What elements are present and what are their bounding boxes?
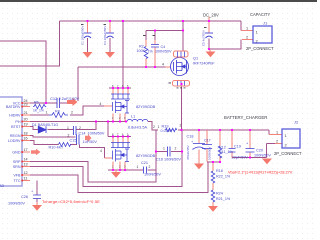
- Q1 drain pin block: [173, 81, 190, 87]
- capacitor C26: [33, 195, 41, 199]
- svg-text:D1 BAS40LT1G: D1 BAS40LT1G: [32, 123, 58, 127]
- stub divider mid: [212, 183, 214, 190]
- pin stub Q2 gate: [104, 105, 112, 107]
- svg-text:18: 18: [24, 131, 28, 135]
- wire Q3 drain bus: [108, 136, 131, 138]
- wire rail corner to J2 pin1: [268, 130, 270, 135]
- node rail C1: [86, 20, 88, 22]
- svg-text:2: 2: [68, 134, 70, 138]
- pin pads IC: [21, 102, 23, 181]
- svg-text:1: 1: [158, 125, 160, 129]
- stub C26 ground: [36, 202, 38, 205]
- svg-text:R6: R6: [34, 101, 39, 105]
- ground battery minus: [262, 159, 272, 165]
- wire PH node y121.5: [30, 121, 127, 123]
- node bat rail C20: [249, 129, 251, 131]
- stub R11 bottom: [219, 156, 221, 162]
- wire L1 to R19: [148, 122, 158, 131]
- svg-text:23: 23: [24, 103, 28, 107]
- transistor Q1: [171, 58, 189, 76]
- ground C5: [206, 52, 216, 58]
- svg-text:4: 4: [100, 102, 102, 106]
- svg-text:C16 100N/50V: C16 100N/50V: [156, 158, 181, 162]
- svg-text:100K: 100K: [137, 49, 146, 53]
- stub C20 column: [249, 130, 251, 158]
- svg-text:2: 2: [79, 126, 81, 130]
- top toolbar bar: [0, 0, 317, 2]
- svg-text:VFB: VFB: [13, 174, 21, 178]
- stub divider bottom ground: [212, 202, 214, 206]
- stub C5 top: [208, 17, 210, 33]
- polarity marks caps: [81, 24, 207, 36]
- svg-text:C21: C21: [141, 161, 148, 165]
- wire SRN sense: [30, 152, 182, 187]
- wire VFB sense to divider: [30, 162, 213, 193]
- svg-text:1: 1: [276, 131, 278, 135]
- svg-text:Q1: Q1: [193, 57, 198, 61]
- capacitor C1: [84, 33, 92, 38]
- stub DC_28V label: [208, 17, 210, 22]
- svg-text:2: 2: [180, 124, 182, 128]
- svg-text:4: 4: [162, 63, 164, 67]
- stub R11 top: [219, 131, 221, 146]
- svg-text:100N/50V: 100N/50V: [254, 154, 271, 158]
- resistor R2: [144, 47, 148, 59]
- pin stub BTST 19: [22, 126, 30, 128]
- wire C1 bottom lead: [87, 38, 89, 52]
- svg-text:2: 2: [175, 147, 177, 151]
- ground C18: [194, 164, 204, 170]
- wire C3 bottom lead: [109, 38, 111, 52]
- capacitor C20: [246, 149, 255, 153]
- capacitor C12: [57, 98, 60, 108]
- capacitor C14: [74, 126, 77, 135]
- svg-text:82Y09GDB: 82Y09GDB: [136, 105, 156, 109]
- capacitor C16: [168, 147, 171, 157]
- svg-text:AD: AD: [0, 184, 4, 188]
- wire LODRV row to Q3 gate: [30, 141, 105, 159]
- node Q3 bus: [112, 135, 114, 137]
- stub C18 column: [198, 130, 200, 164]
- pin stub REGN 18: [22, 135, 30, 137]
- power arrow at VCC C12 node: [67, 98, 78, 106]
- svg-text:C17: C17: [204, 139, 211, 143]
- wire Q3 source ground bus: [108, 169, 156, 171]
- wire input rail DC_28V y21: [60, 20, 242, 22]
- resistor R6: [33, 104, 46, 108]
- stub C4 top: [154, 40, 156, 44]
- stub C17 column: [206, 130, 208, 162]
- stub divider top: [212, 162, 214, 171]
- svg-text:13: 13: [24, 162, 28, 166]
- resistor R11: [218, 146, 222, 158]
- svg-text:100N/50V: 100N/50V: [88, 132, 105, 136]
- svg-text:6.8uH/3.5A: 6.8uH/3.5A: [128, 126, 147, 130]
- node PH c: [112, 120, 114, 122]
- node bat rail R11: [219, 129, 221, 131]
- svg-text:20: 20: [24, 117, 28, 121]
- ground Q3 source: [111, 172, 121, 178]
- svg-text:C20: C20: [256, 149, 263, 153]
- svg-text:19: 19: [24, 122, 28, 126]
- svg-text:C4: C4: [161, 45, 166, 49]
- pin numbers Q2 top: [112, 84, 129, 88]
- svg-text:2P_CONNECT: 2P_CONNECT: [274, 151, 302, 156]
- wire vertical x78 arrow to gate net: [77, 67, 79, 101]
- capacitor C3: [106, 33, 114, 38]
- svg-text:IRF7240PbF: IRF7240PbF: [193, 62, 215, 66]
- svg-text:14: 14: [24, 157, 28, 161]
- capacitor C15: [77, 135, 80, 145]
- svg-text:470uF/35V: 470uF/35V: [186, 145, 190, 160]
- svg-text:R21_1%: R21_1%: [216, 197, 231, 201]
- capacitor C21: [144, 167, 147, 174]
- svg-text:11: 11: [24, 176, 28, 180]
- svg-text:GND: GND: [12, 151, 21, 155]
- ground divider: [208, 206, 218, 212]
- inductor L1: [127, 119, 148, 121]
- svg-text:100N/50V: 100N/50V: [144, 173, 161, 177]
- node PH d: [119, 120, 121, 122]
- svg-text:R22_1%: R22_1%: [216, 175, 231, 179]
- node bat rail Q1: [180, 129, 182, 131]
- node C5 bottom: [208, 48, 210, 50]
- node Q2 bus: [112, 87, 114, 89]
- ground C3: [105, 52, 115, 58]
- capacitor C17: [202, 145, 212, 149]
- svg-text:BATTERY_CHARGER: BATTERY_CHARGER: [224, 115, 267, 120]
- svg-text:SRP: SRP: [13, 160, 21, 164]
- stub Q2 source pins: [113, 114, 125, 122]
- stub ground Q3 bus: [115, 170, 117, 172]
- node PH b: [107, 120, 109, 122]
- pin stub VCC 24: [22, 102, 30, 104]
- wire REGN row: [30, 136, 76, 138]
- svg-text:16: 16: [24, 136, 28, 140]
- svg-text:0.01W: 0.01W: [161, 129, 172, 133]
- svg-text:4: 4: [100, 149, 102, 153]
- wire J2 pin2 to ground: [267, 144, 276, 158]
- stub Q3 source grounds: [113, 162, 125, 171]
- node gate net C4: [154, 66, 156, 68]
- wire SRP sense: [30, 152, 156, 183]
- wire C26 column: [36, 181, 38, 205]
- node R11 bottom: [219, 161, 221, 163]
- svg-text:R24: R24: [216, 192, 223, 196]
- svg-text:12: 12: [24, 171, 28, 175]
- node bat rail C19: [231, 129, 233, 131]
- svg-text:C15: C15: [70, 139, 77, 143]
- svg-text:C1 100uF/50V: C1 100uF/50V: [81, 26, 85, 45]
- wire Q2 drain bus: [109, 87, 131, 89]
- transistor Q2: [111, 94, 130, 113]
- svg-text:21: 21: [24, 111, 28, 115]
- svg-text:CAPACITY: CAPACITY: [250, 12, 270, 17]
- wire ground line y157.5: [232, 157, 267, 159]
- node rail C5: [208, 20, 210, 22]
- node gnd bus: [112, 169, 114, 171]
- pin stub J1 pin2: [242, 39, 253, 41]
- wire C16 sense right: [171, 130, 182, 152]
- node C4 top: [154, 29, 156, 31]
- svg-text:C3 100uF/50V: C3 100uF/50V: [103, 26, 107, 45]
- IC U1 battery charger box: [0, 97, 22, 186]
- pin stub J1 pin1: [241, 30, 253, 32]
- diode D1: [38, 126, 46, 133]
- wire R2 C4 top feed y30.5: [146, 31, 183, 41]
- stub R2 bottom: [145, 59, 147, 68]
- svg-text:R8: R8: [55, 110, 60, 114]
- pin stub LODRV 16: [22, 140, 30, 142]
- svg-text:1: 1: [163, 147, 165, 151]
- svg-text:R12: R12: [219, 146, 226, 150]
- stub Q2 drain pins: [113, 88, 128, 94]
- pin stub BATDRV 23: [22, 106, 30, 108]
- svg-text:2: 2: [149, 165, 151, 169]
- pin stub SRN 13: [22, 166, 30, 168]
- connector J2: [282, 129, 300, 148]
- node C16 left: [155, 150, 157, 152]
- wire BTST row through D1 C14: [30, 122, 96, 130]
- resistor R8: [49, 113, 68, 118]
- stub C4 bottom: [154, 48, 156, 68]
- stub C19 column: [231, 130, 233, 158]
- svg-text:R18: R18: [216, 169, 223, 173]
- stub C1 top: [87, 21, 89, 33]
- node divider top: [212, 161, 214, 163]
- pin stub HIDRV 21: [22, 114, 30, 116]
- svg-text:R10 4K7: R10 4K7: [49, 146, 64, 150]
- resistor R24 divider bottom: [211, 190, 215, 202]
- pin numbers Q2 bottom: [112, 116, 126, 120]
- svg-text:L1: L1: [131, 115, 135, 119]
- pin stub GND 17: [22, 151, 30, 153]
- pin numbers Q3 top: [112, 133, 129, 137]
- node rail C3: [109, 20, 111, 22]
- svg-text:1: 1: [246, 27, 248, 31]
- wire PH down to Q3 drain bus: [107, 122, 109, 137]
- svg-text:BATDRV: BATDRV: [6, 105, 21, 109]
- node C16 right: [181, 150, 183, 152]
- ground C1: [83, 52, 93, 58]
- svg-text:1%: 1%: [148, 50, 154, 54]
- svg-text:22pF/50V: 22pF/50V: [232, 156, 249, 160]
- ground arrow at GND pin: [31, 149, 41, 156]
- svg-text:2: 2: [276, 140, 278, 144]
- capacitor C19: [229, 149, 236, 153]
- wire VCC row: [30, 102, 57, 104]
- svg-text:1K_1%: 1K_1%: [33, 108, 44, 112]
- transistor Q3: [111, 143, 130, 162]
- svg-text:1: 1: [137, 165, 139, 169]
- pin stub J2 pin2: [275, 143, 282, 145]
- svg-text:C19: C19: [234, 145, 241, 149]
- svg-text:1uF/50V: 1uF/50V: [83, 140, 98, 144]
- svg-text:R2: R2: [139, 45, 144, 49]
- svg-text:Vbat=2.1*(1+R11/(R17+R22))+28.: Vbat=2.1*(1+R11/(R17+R22))+28.27V: [228, 171, 293, 175]
- connector J1: [253, 26, 272, 43]
- node gate net R2: [145, 66, 147, 68]
- svg-text:LODRV: LODRV: [8, 139, 21, 143]
- pin stub PH 20: [22, 121, 30, 123]
- wire left drop from rail to y66 edge: [0, 21, 60, 66]
- svg-text:100N/50V: 100N/50V: [8, 202, 25, 206]
- ground C26: [32, 205, 42, 211]
- svg-text:100N/50V: 100N/50V: [208, 147, 212, 160]
- svg-text:1: 1: [46, 111, 48, 115]
- pin stub Q1 gate: [166, 66, 172, 68]
- svg-text:C14: C14: [79, 132, 86, 136]
- pin stub J2 pin1: [269, 134, 282, 136]
- capacitor C18 electrolytic: [193, 144, 206, 150]
- wire battery rail y130: [178, 129, 269, 131]
- node bat rail C18: [198, 129, 200, 131]
- capacitor C5: [205, 33, 213, 38]
- pin numbers Q3 bottom: [112, 165, 126, 169]
- svg-text:PH: PH: [15, 120, 20, 124]
- svg-text:100N/50V: 100N/50V: [155, 50, 172, 54]
- stub C3 top: [109, 21, 111, 33]
- svg-text:1: 1: [67, 126, 69, 130]
- node rail Q1: [182, 20, 184, 22]
- svg-text:17: 17: [24, 148, 28, 152]
- svg-text:TTC: TTC: [13, 179, 21, 183]
- svg-text:2P_CONNECT: 2P_CONNECT: [246, 46, 274, 51]
- svg-text:Tcharge=C52*5.6min/uF*0.5E: Tcharge=C52*5.6min/uF*0.5E: [42, 199, 100, 204]
- svg-text:2: 2: [153, 125, 155, 129]
- svg-text:BTST: BTST: [11, 125, 21, 129]
- svg-text:C18: C18: [187, 135, 194, 139]
- resistor R18 divider top: [211, 171, 215, 183]
- wire x123 vertical rail to Q2 drain: [122, 21, 124, 88]
- stub C5 bottom ground: [209, 49, 211, 52]
- svg-text:82Y09GDB: 82Y09GDB: [136, 154, 156, 158]
- wire gate net y67: [78, 66, 166, 68]
- Q1 source pin block: [174, 51, 189, 57]
- pin marks Q1: [169, 83, 186, 89]
- capacitor C4: [151, 45, 159, 48]
- svg-text:HIDRV: HIDRV: [9, 114, 21, 118]
- svg-text:2: 2: [246, 36, 248, 40]
- svg-text:C12 2.2uF/100V: C12 2.2uF/100V: [50, 96, 79, 101]
- pin stub TTC 11: [22, 180, 30, 182]
- wire C16 sense left: [156, 130, 167, 152]
- wire Q1 drain vertical: [182, 21, 184, 130]
- svg-text:DC_28V: DC_28V: [203, 13, 219, 18]
- svg-text:2: 2: [71, 111, 73, 115]
- pin stub Q3 gate: [105, 157, 113, 159]
- svg-text:C5 4u7/50V: C5 4u7/50V: [202, 30, 206, 46]
- wire left upper feed y41 to VCC: [0, 41, 46, 103]
- node rail x123: [122, 20, 124, 22]
- pin stub SRP 14: [22, 161, 30, 163]
- node gnd line: [249, 156, 251, 158]
- wire HIDRV to Q2 gate: [30, 106, 104, 115]
- wire DC cap bottom to J1 pin2: [209, 21, 241, 49]
- svg-text:REGN: REGN: [10, 134, 21, 138]
- node Q1 drain top: [180, 83, 182, 85]
- stub Q3 drain pins: [113, 137, 128, 143]
- svg-text:C26: C26: [21, 195, 28, 199]
- power arrow at REGN C15 node: [85, 134, 92, 142]
- wire divider node line y162: [207, 161, 220, 163]
- stub R2 top: [145, 40, 147, 47]
- node PH a: [95, 120, 97, 122]
- resistor R10: [59, 143, 72, 147]
- pin stub VFB 12: [22, 174, 30, 176]
- wire C21 right segment: [148, 169, 157, 171]
- node y30 Q1: [182, 29, 184, 31]
- resistor R19 shunt: [166, 128, 177, 131]
- svg-text:SRN: SRN: [13, 165, 21, 169]
- node PH e: [125, 120, 127, 122]
- node VCC entry: [45, 102, 47, 104]
